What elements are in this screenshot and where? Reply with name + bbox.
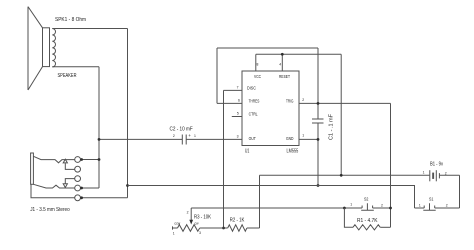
jack J1 row2 switch arm with up arrow xyxy=(65,163,74,169)
wire y185.5 from jack/speaker net to S1 xyxy=(128,186,415,209)
svg-text:SPEAKER: SPEAKER xyxy=(58,73,77,79)
svg-text:SPK1 - 8 Ohm: SPK1 - 8 Ohm xyxy=(55,17,86,23)
svg-text:J1 - 3.5 mm Stereo: J1 - 3.5 mm Stereo xyxy=(30,207,70,213)
junction dot jack row1 terminal xyxy=(80,158,83,161)
wire wiper rail y208 to S2 xyxy=(191,207,362,209)
svg-text:B1 - 9v: B1 - 9v xyxy=(430,161,443,167)
pin wire THRES xyxy=(217,102,242,104)
svg-text:LM555: LM555 xyxy=(287,149,299,155)
R3 wiper arrowhead xyxy=(189,220,193,225)
svg-text:2: 2 xyxy=(445,171,447,175)
op-amp U1 LM555 body xyxy=(242,71,299,146)
svg-text:C1 - .1 mF: C1 - .1 mF xyxy=(329,114,335,140)
pin wire DISC xyxy=(224,89,243,91)
jack J1 pin circle row3 xyxy=(75,176,81,182)
battery B1 plate long 2 xyxy=(435,170,437,181)
wire y175.3 battery plus rail xyxy=(260,174,430,176)
junction dot R3/R2/DISC xyxy=(222,227,225,230)
battery B1 plate long 1 xyxy=(429,170,431,181)
R3 right lead xyxy=(200,227,224,229)
R3 left lead with end tick xyxy=(173,226,178,229)
svg-text:CTRL: CTRL xyxy=(249,112,258,117)
svg-text:2: 2 xyxy=(381,203,383,207)
svg-text:8: 8 xyxy=(257,63,259,67)
jack J1 pin circle row2 xyxy=(75,166,81,172)
wire OUT net with C2: left part xyxy=(99,138,182,140)
junction dot y185.5 wire at x127.5 xyxy=(126,184,129,187)
junction dot row1 wire at x99 xyxy=(98,158,101,161)
R1 right lead xyxy=(380,226,390,228)
svg-text:+: + xyxy=(188,133,191,138)
jack J1 ring contact xyxy=(33,184,74,188)
wire jack row1 to x99 xyxy=(81,159,100,161)
svg-text:GND: GND xyxy=(286,136,294,141)
speaker SPK1 driver rectangle xyxy=(43,28,50,67)
svg-text:S2: S2 xyxy=(364,197,369,202)
wire B VCC-RESET to battery plus leg xyxy=(256,53,341,55)
capacitor C2 plates xyxy=(182,135,186,145)
svg-text:1: 1 xyxy=(173,232,175,236)
battery B1 right lead xyxy=(439,174,459,176)
speaker SPK1 coil xyxy=(52,29,55,67)
svg-text:3: 3 xyxy=(199,231,201,235)
svg-text:DISC: DISC xyxy=(247,85,256,90)
pin wire TRIG xyxy=(299,102,391,104)
wire jack row4 to x99 xyxy=(81,187,100,189)
potentiometer R3 - 10K zigzag xyxy=(178,225,200,232)
junction dot C2 wire at x99 xyxy=(98,138,101,141)
jack J1 pin circle row5 xyxy=(75,195,81,201)
svg-text:6: 6 xyxy=(238,99,240,103)
svg-text:VCC: VCC xyxy=(254,74,261,79)
switch S1 contacts xyxy=(424,206,435,209)
jack J1 tip contact xyxy=(33,156,74,163)
junction dot wire B leg on y175.3 xyxy=(340,174,343,177)
svg-text:1: 1 xyxy=(423,171,425,175)
svg-text:5: 5 xyxy=(237,111,239,115)
svg-text:S1: S1 xyxy=(429,197,434,202)
svg-text:R2 - 1K: R2 - 1K xyxy=(230,218,245,224)
R1 left leg xyxy=(344,208,353,227)
pin stub RESET xyxy=(281,54,283,71)
switch S2 actuator bar and stem xyxy=(361,203,374,210)
wire S2 right node xyxy=(373,207,391,209)
resistor R2 - 1K xyxy=(228,225,247,231)
svg-text:7: 7 xyxy=(237,86,239,90)
switch S2 contacts xyxy=(362,206,373,209)
battery B1 plate short 2 xyxy=(438,173,440,178)
wire A right leg down to C1 top plate xyxy=(317,48,319,119)
svg-text:2: 2 xyxy=(446,203,448,207)
svg-text:R3 - 10K: R3 - 10K xyxy=(194,214,212,220)
wire R2 right leg xyxy=(247,175,260,228)
svg-text:RESET: RESET xyxy=(279,74,290,79)
svg-text:C2 - 10 mF: C2 - 10 mF xyxy=(170,127,193,133)
svg-text:3: 3 xyxy=(237,134,239,138)
jack J1 sleeve line xyxy=(31,184,75,198)
junction dot S2 left / R1 left xyxy=(343,207,346,210)
junction dot GND wire x317.8 xyxy=(317,138,320,141)
pin stub VCC xyxy=(255,54,257,71)
wire S1 right leg up to battery xyxy=(459,175,461,208)
wire speaker bottom to x99 xyxy=(52,66,99,68)
junction dot jack row4 terminal xyxy=(80,187,83,190)
junction dot RESET stub xyxy=(281,53,284,56)
svg-text:R1 - 4.7K: R1 - 4.7K xyxy=(357,218,378,224)
jack J1 pin circle row1 xyxy=(75,157,81,163)
junction dot TRIG wire x317.8 xyxy=(317,102,320,105)
wire vertical x99 down to jack row4 xyxy=(98,67,100,188)
wire C2 right plate to OUT pin xyxy=(186,138,242,140)
switch S1 actuator bar and stem xyxy=(423,203,435,210)
resistor R1 - 4.7K xyxy=(353,225,380,230)
svg-text:cw: cw xyxy=(195,222,200,226)
svg-text:1: 1 xyxy=(419,203,421,207)
wire jack row5 to x127.5 xyxy=(81,197,128,199)
wire A THRES-TRIG top link xyxy=(217,47,318,49)
jack J1 pin circle row4 xyxy=(75,185,81,191)
svg-text:OUT: OUT xyxy=(249,136,256,141)
svg-text:2: 2 xyxy=(187,210,189,214)
svg-text:2: 2 xyxy=(302,98,304,102)
wire speaker top to x127.5 xyxy=(52,28,127,30)
svg-text:1: 1 xyxy=(302,134,304,138)
switch S1 wires xyxy=(415,207,460,209)
svg-text:2: 2 xyxy=(173,134,175,138)
jack J1 row3 switch arm with down arrow xyxy=(65,179,74,184)
svg-text:TRIG: TRIG xyxy=(286,99,294,104)
junction dot y185.5 wire x317.8 xyxy=(317,184,320,187)
wire TRIG leg down to S2 right node and R1 right leg xyxy=(390,103,392,227)
wire DISC leg down to R3/R2 junction xyxy=(223,90,225,228)
svg-text:U1: U1 xyxy=(245,149,250,155)
svg-text:4: 4 xyxy=(279,63,281,67)
junction dot S2 right / R1 right xyxy=(389,207,392,210)
jack J1 body xyxy=(31,153,34,184)
R3 wiper stem xyxy=(190,208,192,220)
svg-text:THRES: THRES xyxy=(249,99,260,104)
junction dot jack row5 terminal xyxy=(80,196,83,199)
svg-text:1: 1 xyxy=(350,203,352,207)
pin wire GND xyxy=(299,138,318,140)
svg-text:1: 1 xyxy=(194,134,196,138)
capacitor C1 plates xyxy=(312,119,324,123)
wire C1 bottom lead down to y185.5 net xyxy=(317,123,319,186)
svg-text:ccw: ccw xyxy=(174,222,180,226)
wire B vertical leg x341.2 xyxy=(340,54,342,175)
speaker SPK1 cone xyxy=(28,7,43,90)
wire A left leg to THRES xyxy=(216,48,218,103)
battery B1 plate short rect xyxy=(432,173,435,178)
wire vertical x127.5 speaker top down to jack sleeve row xyxy=(127,29,129,198)
pin stub CTRL xyxy=(232,116,242,118)
